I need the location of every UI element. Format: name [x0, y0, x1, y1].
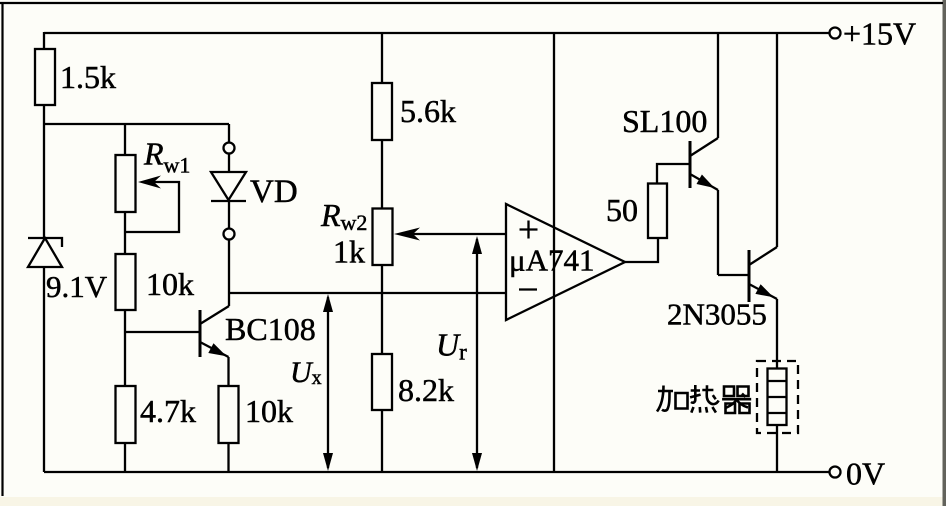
resistor 1.5k: [35, 49, 55, 105]
terminal circle VD top: [224, 143, 235, 154]
wire: 4.7k to bottom rail: [124, 443, 126, 472]
wire: base of BC108: [125, 331, 200, 333]
transistor Q3 2N3055 emitter diagonal: [749, 284, 777, 299]
annotation arrow Ur: [476, 239, 478, 468]
border frame top: [0, 2, 943, 4]
svg-text:+15V: +15V: [843, 16, 916, 52]
wire: SL100 emitter down: [717, 190, 719, 275]
wire: left column top (rail to R 1.5k): [43, 32, 45, 49]
potentiometer Rw1 wiper arrowhead: [138, 176, 161, 189]
transistor Q1 BC108 emitter arrowhead: [208, 343, 226, 356]
svg-text:2N3055: 2N3055: [667, 297, 767, 332]
resistor R3 4.7k: [116, 386, 136, 443]
wire: BC108 emitter to 10k: [227, 357, 229, 386]
wire: 50 to SL100 base: [657, 164, 690, 184]
wire: R4 to bottom rail: [227, 443, 229, 472]
heater dashed outline: [757, 361, 798, 433]
zener diode VZ 9.1V triangle: [28, 238, 62, 267]
svg-text:0V: 0V: [846, 456, 885, 492]
resistor R6 8.2k: [372, 354, 392, 410]
svg-text:8.2k: 8.2k: [398, 372, 454, 408]
heater element body: [768, 369, 787, 426]
svg-text:SL100: SL100: [622, 103, 707, 139]
potentiometer Rw2 wiper arrowhead: [394, 228, 420, 241]
transistor Q2 SL100 base bar: [689, 141, 692, 188]
transistor Q1 BC108 base bar: [199, 310, 202, 357]
wire: collector node to op-amp inverting input: [228, 292, 506, 294]
glyph jia: [657, 386, 673, 412]
resistor R7 50: [648, 184, 667, 239]
wire: op-amp power line vertical: [553, 33, 555, 472]
terminal circle VD bottom: [224, 229, 235, 240]
terminal circle 0V: [830, 467, 841, 478]
annotation arrow Ur top head: [472, 236, 482, 254]
wire: VD bottom to BC108 collector: [228, 240, 230, 307]
resistor R5 5.6k: [372, 83, 392, 140]
resistor R4 10k emitter: [219, 386, 239, 443]
wire: 2N3055 collector to rail: [776, 33, 778, 247]
svg-text:VD: VD: [250, 174, 298, 210]
right gray edge bar: [943, 0, 946, 506]
svg-text:9.1V: 9.1V: [46, 269, 108, 304]
wire: Rw2 to 8.2k: [381, 265, 383, 354]
svg-text:1k: 1k: [333, 234, 365, 270]
annotation arrow Ux bottom head: [323, 453, 333, 471]
potentiometer Rw1 body: [116, 155, 136, 212]
annotation arrow Ur bottom head: [472, 453, 482, 471]
transistor Q1 BC108 collector diagonal: [200, 306, 229, 324]
potentiometer Rw2 body: [373, 209, 393, 266]
svg-text:BC108: BC108: [225, 311, 316, 347]
transistor Q2 SL100 emitter arrowhead: [697, 175, 715, 189]
wire: 0V bottom rail: [44, 471, 830, 473]
resistor R2 10k: [116, 254, 136, 310]
wire: node A horizontal (left column to VD): [44, 123, 229, 125]
wire: VD bar to bottom circle: [228, 201, 230, 229]
heater element segment line 1: [768, 380, 787, 382]
transistor Q1 BC108 emitter diagonal: [200, 342, 229, 357]
diode VD cathode bar: [211, 200, 246, 202]
op-amp plus symbol: [520, 221, 538, 239]
transistor Q3 2N3055 emitter arrowhead: [755, 284, 773, 297]
diode VD triangle: [211, 172, 246, 200]
wire: 1.5k to zener: [43, 105, 45, 238]
heater element segment line 2: [768, 396, 787, 398]
wire: heater to bottom rail: [776, 425, 778, 472]
annotation arrow Ux top head: [323, 294, 333, 312]
svg-text:4.7k: 4.7k: [140, 393, 196, 429]
svg-text:5.6k: 5.6k: [400, 93, 456, 129]
transistor Q3 2N3055 base bar: [748, 250, 751, 302]
wire: SL100 emitter to 2N3055 base: [718, 274, 749, 276]
glyph re: [690, 385, 719, 404]
svg-text:50: 50: [606, 192, 638, 228]
terminal circle +15V: [830, 28, 841, 39]
svg-text:μA741: μA741: [509, 243, 595, 278]
potentiometer Rw1 wiper arrow: [125, 182, 179, 232]
svg-text:10k: 10k: [245, 393, 293, 429]
transistor Q2 SL100 collector diagonal: [690, 138, 718, 156]
wire: node A to Rw1: [124, 124, 126, 155]
label heater chinese 加热器: [657, 385, 751, 413]
wire: +15V top rail: [44, 32, 830, 34]
wire: middle column rail to 5.6k: [381, 33, 383, 83]
wire: 10k to 4.7k: [124, 310, 126, 386]
annotation arrow Ux: [327, 297, 329, 468]
transistor Q2 SL100 emitter diagonal: [690, 174, 718, 190]
heater element segment line 3: [768, 412, 787, 414]
wire: zener to bottom rail: [43, 267, 45, 472]
op-amp minus symbol: [519, 288, 537, 290]
glyph qi: [724, 387, 749, 397]
border frame left: [1, 2, 3, 496]
wire: Rw2 wiper to op-amp noninverting input: [408, 233, 506, 235]
svg-text:1.5k: 1.5k: [60, 59, 116, 95]
op-amp U1 triangle: [506, 204, 625, 320]
wire: Rw1 to 10k: [124, 212, 126, 254]
wire: 5.6k to Rw2: [381, 140, 383, 209]
svg-text:10k: 10k: [146, 266, 194, 302]
wire: SL100 collector to rail: [717, 33, 719, 138]
bottom cream strip: [0, 497, 946, 506]
transistor Q3 2N3055 collector diagonal: [749, 247, 777, 265]
wire: op-amp output: [625, 238, 658, 262]
wire: 2N3055 emitter to heater: [776, 299, 778, 369]
zener diode VZ 9.1V cathode bar: [28, 238, 62, 247]
wire: node A to VD top: [228, 124, 230, 143]
wire: 8.2k to bottom rail: [381, 410, 383, 472]
wire: VD top circle to triangle: [228, 154, 230, 173]
